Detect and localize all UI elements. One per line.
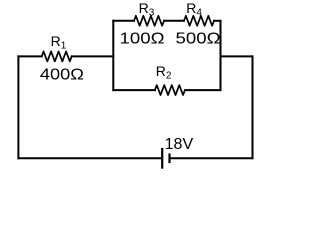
resistor R1 xyxy=(42,51,72,61)
wire box top edge segment 1 xyxy=(113,20,134,22)
wire bottom left xyxy=(18,157,161,159)
svg-text:R2: R2 xyxy=(156,63,172,82)
wire box right edge xyxy=(220,21,222,90)
wire box top edge segment 2 xyxy=(214,20,221,22)
svg-text:R1: R1 xyxy=(51,33,67,52)
resistor R2 xyxy=(155,85,185,95)
wire R1 to box xyxy=(72,55,114,57)
wire between R3 and R4 xyxy=(164,20,184,22)
svg-text:R4: R4 xyxy=(186,0,202,19)
wire box left edge xyxy=(112,21,114,90)
svg-text:100Ω: 100Ω xyxy=(120,31,165,48)
svg-text:400Ω: 400Ω xyxy=(40,67,84,84)
wire right vertical xyxy=(252,56,254,158)
wire left vertical xyxy=(17,56,19,158)
resistor R3 xyxy=(134,16,164,26)
wire box bottom edge segment 2 xyxy=(185,89,221,91)
svg-text:R3: R3 xyxy=(139,0,155,19)
wire bottom right xyxy=(171,157,253,159)
wire box bottom edge segment 1 xyxy=(113,89,155,91)
svg-text:500Ω: 500Ω xyxy=(176,31,221,48)
battery V1 short plate xyxy=(168,153,170,163)
wire right connect xyxy=(221,55,253,57)
wire top-left horizontal xyxy=(18,55,41,57)
battery V1 long plate xyxy=(161,148,163,169)
svg-text:18V: 18V xyxy=(165,136,194,153)
resistor R4 xyxy=(184,16,214,26)
